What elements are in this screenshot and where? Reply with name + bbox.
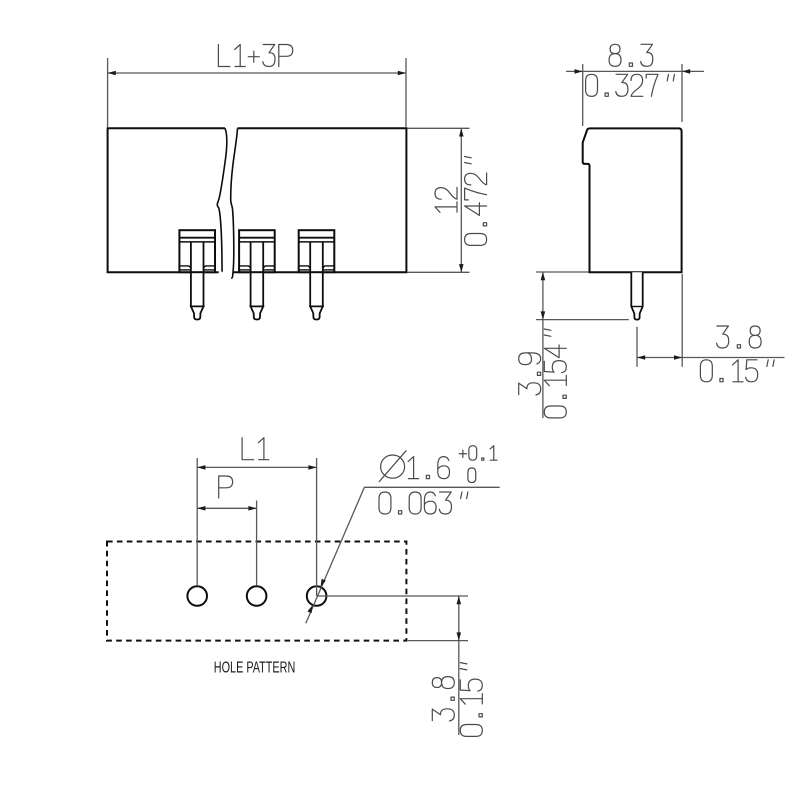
dimension 3.9 line with tail bbox=[542, 272, 544, 418]
dimension L1 extension line right (to hole 3 center) bbox=[316, 458, 318, 596]
dimension 3.8 (hole) inch text bbox=[460, 663, 482, 737]
dimension 3.8 (hole) mm text bbox=[432, 677, 454, 721]
dimension 3.8 (hole) arrow bottom bbox=[457, 632, 462, 640]
tolerance upper text bbox=[459, 446, 497, 461]
dimension 3.9 mm text bbox=[519, 353, 541, 395]
dimension P text bbox=[219, 476, 233, 498]
dimension L1+3P extension line left bbox=[107, 58, 109, 127]
dimension 3.8 (hole) arrow top bbox=[457, 596, 462, 604]
dimension 8.3 mm text bbox=[609, 44, 653, 66]
svg-text:HOLE PATTERN: HOLE PATTERN bbox=[214, 660, 295, 677]
diameter leader line bbox=[306, 487, 500, 623]
break line (right wave) bbox=[231, 128, 238, 278]
dimension 3.9 extension line top bbox=[536, 271, 589, 273]
side view housing body bbox=[583, 128, 682, 272]
pin 1 (front view) bbox=[179, 230, 215, 319]
diameter inch text bbox=[379, 492, 468, 514]
dimension 12 arrow bottom bbox=[459, 264, 464, 272]
front view housing body (left part, interrupted by break) bbox=[108, 128, 225, 272]
diameter value text bbox=[408, 457, 449, 479]
dimension P arrow right bbox=[248, 506, 256, 511]
dimension 3.9 inch text bbox=[544, 329, 566, 418]
dimension L1 text bbox=[242, 438, 269, 460]
dimension 8.3 extension line right bbox=[681, 64, 683, 122]
tolerance lower text bbox=[468, 468, 476, 483]
dimension 3.9 extension line bottom bbox=[536, 319, 629, 321]
dimension L1+3P arrow right bbox=[398, 71, 406, 76]
diameter symbol bbox=[379, 451, 406, 482]
hole 2 bbox=[247, 586, 267, 606]
dimension L1 extension line left bbox=[196, 458, 198, 586]
dimension 8.3 arrow left (outside) bbox=[575, 69, 583, 74]
dimension 3.9 arrow bottom bbox=[541, 311, 546, 319]
dimension L1 arrow right bbox=[308, 465, 316, 470]
dimension 8.3 extension line left bbox=[582, 64, 584, 126]
pin 3 (front view) bbox=[299, 230, 335, 319]
dimension 3.8 (side) inch text bbox=[700, 360, 774, 382]
side view pin bbox=[631, 272, 642, 319]
dimension P arrow left bbox=[197, 506, 205, 511]
dimension 3.8 (side) arrow right bbox=[674, 355, 682, 360]
dimension P extension line right bbox=[256, 501, 258, 586]
dimension L1+3P extension line right bbox=[405, 58, 407, 127]
front view housing body (right part) bbox=[233, 128, 407, 272]
hole 3 center line horizontal bbox=[317, 595, 468, 597]
dimension 8.3 line bbox=[566, 70, 704, 72]
dimension 12 arrow top bbox=[459, 128, 464, 136]
dimension L1 arrow left bbox=[197, 465, 205, 470]
dimension 3.8 (side) extension line body edge bbox=[681, 274, 683, 367]
dimension 3.8 (side) line with tail bbox=[637, 357, 785, 359]
dimension L1+3P text bbox=[218, 45, 292, 67]
dimension L1+3P arrow left bbox=[108, 71, 116, 76]
hole pattern dashed outline bbox=[107, 542, 406, 641]
dimension 12 extension line bottom bbox=[408, 271, 470, 273]
dimension 3.8 (side) extension line pin center bbox=[636, 327, 638, 367]
dimension 12 mm text bbox=[435, 187, 457, 212]
break line (left wave) bbox=[217, 128, 227, 271]
dimension 3.8 (hole) extension line bottom bbox=[408, 640, 468, 642]
pin 2 (front view) bbox=[239, 230, 275, 319]
dimension 12 extension line top bbox=[408, 127, 470, 129]
dimension L1 line bbox=[197, 466, 316, 468]
hole 1 bbox=[187, 586, 207, 606]
hole 3 bbox=[307, 586, 327, 606]
side view pin crossbar bbox=[631, 306, 642, 308]
dimension 3.8 (side) mm text bbox=[717, 326, 762, 348]
diameter leader arrow lower bbox=[307, 605, 312, 613]
dimension 12 inch text bbox=[465, 157, 487, 246]
dimension P line bbox=[197, 507, 256, 509]
dimension 12 line bbox=[460, 128, 462, 272]
dimension 8.3 arrow right (outside) bbox=[682, 69, 690, 74]
dimension 8.3 inch text bbox=[586, 74, 675, 96]
dimension L1+3P line bbox=[108, 72, 406, 74]
dimension 3.8 (hole) line with tail bbox=[458, 596, 460, 735]
diameter leader arrow upper bbox=[321, 579, 326, 587]
dimension 3.8 (side) arrow left bbox=[637, 355, 645, 360]
dimension 3.9 arrow top bbox=[541, 272, 546, 280]
